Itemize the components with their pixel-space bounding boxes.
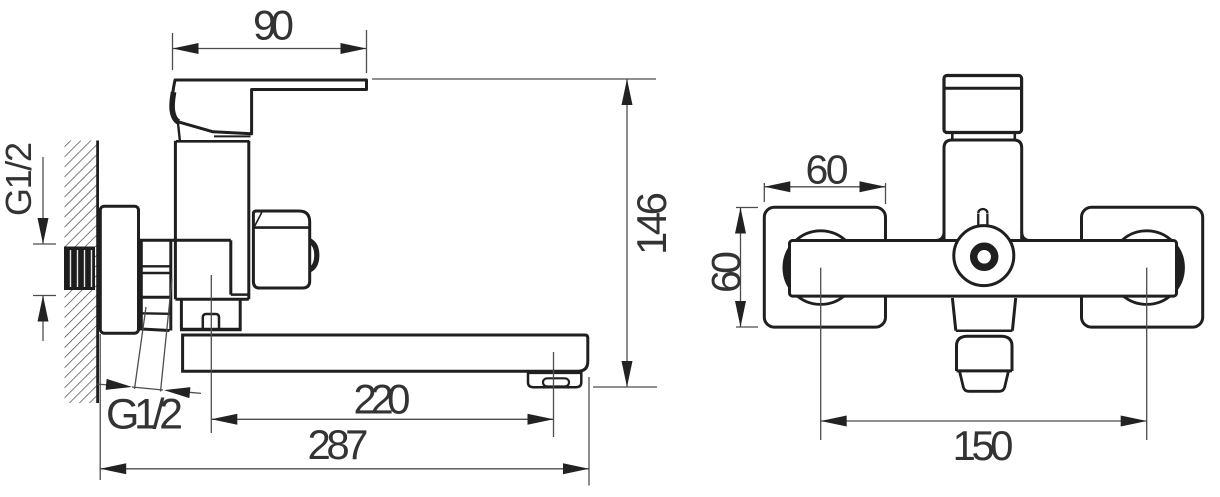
svg-text:60: 60 xyxy=(703,251,749,293)
svg-text:60: 60 xyxy=(806,147,849,193)
svg-text:287: 287 xyxy=(308,421,369,468)
svg-text:G1/2: G1/2 xyxy=(0,142,39,216)
svg-text:220: 220 xyxy=(354,376,411,423)
svg-text:G1/2: G1/2 xyxy=(106,391,183,439)
svg-text:150: 150 xyxy=(953,422,1014,469)
svg-text:146: 146 xyxy=(628,192,675,255)
svg-text:90: 90 xyxy=(253,2,294,49)
